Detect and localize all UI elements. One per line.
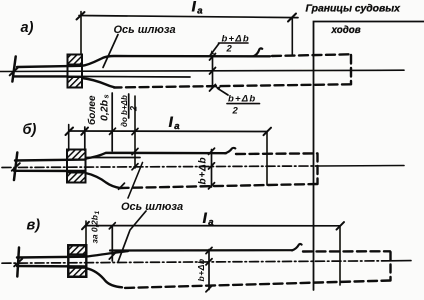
svg-text:b+Δb: b+Δb: [196, 258, 206, 281]
svg-text:1: 1: [94, 211, 101, 215]
svg-text:l: l: [169, 116, 173, 130]
svg-text:а): а): [21, 20, 34, 36]
svg-text:2: 2: [232, 106, 239, 117]
svg-text:a: a: [197, 6, 202, 17]
svg-text:в): в): [27, 218, 41, 234]
svg-text:a: a: [208, 217, 213, 228]
svg-text:Ось шлюза: Ось шлюза: [114, 24, 176, 36]
svg-text:б): б): [23, 122, 37, 138]
svg-text:l: l: [203, 212, 207, 226]
svg-text:до b+Δb: до b+Δb: [120, 95, 129, 127]
svg-text:b+Δb: b+Δb: [228, 94, 256, 105]
svg-text:Границы судовых: Границы судовых: [306, 4, 402, 15]
svg-text:l: l: [192, 0, 196, 14]
svg-text:a: a: [174, 121, 179, 132]
svg-text:2: 2: [226, 44, 233, 55]
svg-text:ходов: ходов: [331, 25, 361, 36]
svg-text:Ось шлюза: Ось шлюза: [121, 201, 183, 213]
svg-text:2: 2: [129, 106, 139, 112]
svg-text:s: s: [102, 94, 111, 98]
svg-text:0,2b: 0,2b: [99, 99, 111, 121]
svg-text:b+Δb: b+Δb: [198, 157, 209, 185]
svg-text:за 0,2b: за 0,2b: [90, 215, 100, 243]
svg-text:более: более: [86, 95, 98, 125]
